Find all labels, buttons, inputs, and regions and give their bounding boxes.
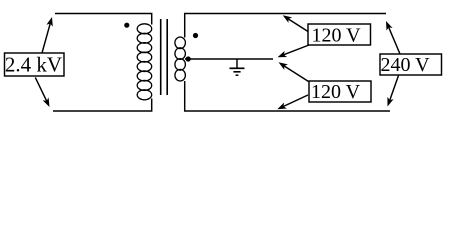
wire center tap (185, 58, 273, 60)
leader arrow 240 V to top line (386, 21, 400, 54)
svg-text:120 V: 120 V (311, 81, 361, 103)
label box 240 V (380, 54, 442, 75)
leader arrow 120 V top to center tap (278, 45, 310, 57)
wire primary winding to bottom line (53, 99, 152, 112)
phase dot secondary (193, 33, 198, 38)
leader arrow 120 V top to top line (283, 15, 308, 31)
svg-text:2.4 kV: 2.4 kV (5, 53, 62, 77)
ground (230, 59, 245, 75)
leader arrow 240 V to bottom line (387, 76, 398, 107)
wire secondary left side top segment (185, 14, 386, 38)
phase dot primary (124, 23, 129, 28)
wire primary top line (55, 13, 151, 15)
leader arrow 120 V bottom to bottom line (277, 95, 308, 109)
label box 120 V bottom (309, 81, 371, 102)
leader arrow 2.4 kV to bottom line (35, 77, 49, 107)
junction center tap dot (186, 56, 191, 61)
label box 2.4 kV (5, 53, 65, 76)
transformer T1 primary winding (137, 24, 152, 100)
leader arrow 2.4 kV to top line (42, 17, 53, 53)
svg-text:120 V: 120 V (311, 25, 361, 47)
transformer core (161, 19, 168, 95)
transformer T1 secondary winding (175, 37, 186, 81)
wire primary top drop to winding (150, 14, 153, 25)
wire secondary left side bottom segment (185, 81, 390, 111)
leader arrow 120 V bottom to center tap (279, 62, 309, 81)
label box 120 V top (308, 24, 371, 45)
svg-text:240 V: 240 V (380, 54, 430, 76)
